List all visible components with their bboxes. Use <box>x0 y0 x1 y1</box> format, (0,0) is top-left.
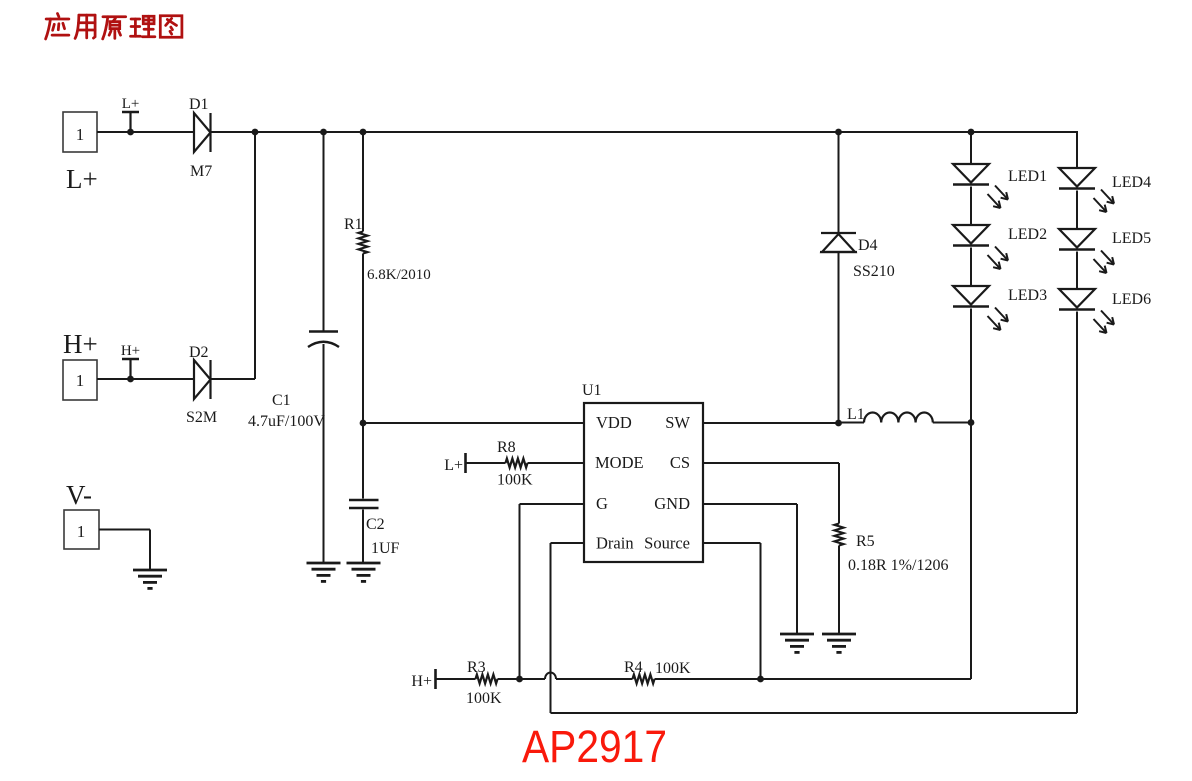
wire L+ port to R8 <box>466 462 506 464</box>
wire Source node to LED string corner <box>761 678 972 680</box>
wire U1.CS right then down to R5 <box>703 462 839 464</box>
node junction rail/LED1 string <box>968 129 975 136</box>
svg-text:4.7uF/100V: 4.7uF/100V <box>248 413 325 430</box>
connector J2 H+ (box pin 1) <box>63 329 98 400</box>
wire U1.G left and down to feedback node <box>520 503 585 505</box>
svg-text:100K: 100K <box>497 472 533 489</box>
svg-text:100K: 100K <box>466 690 502 707</box>
wire top-right corner down to LED4 <box>1076 131 1078 168</box>
svg-text:H+: H+ <box>63 329 98 359</box>
wire LED4 to LED5 <box>1076 191 1078 230</box>
svg-text:AP2917: AP2917 <box>522 721 667 772</box>
svg-text:SW: SW <box>665 413 690 432</box>
wire D2 cathode to rail branch <box>211 378 256 380</box>
svg-text:1: 1 <box>76 125 85 144</box>
svg-text:1UF: 1UF <box>371 540 400 557</box>
wire U1.SW to L1 node <box>703 422 839 424</box>
svg-text:100K: 100K <box>655 660 691 677</box>
port H+ (feedback) <box>434 669 437 689</box>
connector J3 V- (box pin 1) <box>64 480 99 549</box>
port L+ (MODE pull-up) <box>464 453 467 473</box>
LED LED3 <box>953 286 1008 330</box>
svg-text:CS: CS <box>670 453 690 472</box>
wire LED1 to LED2 <box>970 187 972 226</box>
node junction rail/C1 <box>320 129 327 136</box>
ground (U1 GND) <box>780 634 814 652</box>
svg-text:U1: U1 <box>582 382 602 399</box>
wire LED3 down through L1 node to feedback line <box>970 309 972 680</box>
LED LED5 <box>1059 229 1114 273</box>
svg-text:LED6: LED6 <box>1112 291 1151 308</box>
svg-text:LED4: LED4 <box>1112 174 1151 191</box>
title 应用原理图 <box>46 14 182 39</box>
svg-text:L1: L1 <box>847 406 865 423</box>
wire rail to D4 cathode <box>838 132 840 233</box>
wire L+ box to D1 anode <box>97 131 194 133</box>
diode D2 <box>194 360 211 399</box>
LED LED1 <box>953 164 1008 208</box>
svg-text:GND: GND <box>654 494 690 513</box>
ground (C1) <box>307 563 341 581</box>
diode D1 <box>194 113 211 152</box>
svg-text:LED1: LED1 <box>1008 168 1047 185</box>
LED LED4 <box>1059 168 1114 212</box>
svg-text:M7: M7 <box>190 163 212 180</box>
node junction L1/LED1-3 string <box>968 419 975 426</box>
inductor L1 <box>864 413 933 423</box>
node VDD junction <box>360 420 367 427</box>
wire D4 anode to SW node <box>838 252 840 423</box>
svg-text:R4: R4 <box>624 659 643 676</box>
resistor R8 <box>506 459 528 468</box>
svg-text:S2M: S2M <box>186 409 217 426</box>
wire H+ port to R3 <box>436 678 476 680</box>
ground (R5) <box>822 634 856 652</box>
diode D4 (freewheel) <box>820 233 857 252</box>
node junction rail/D2-branch <box>252 129 259 136</box>
svg-text:R3: R3 <box>467 659 486 676</box>
capacitor C2 <box>349 500 379 508</box>
svg-text:1: 1 <box>77 522 86 541</box>
wire U1.Drain left and down <box>551 542 585 544</box>
svg-text:V-: V- <box>66 480 92 510</box>
connector J1 L+ (box pin 1) <box>63 112 98 194</box>
wire V- box to ground <box>99 529 150 531</box>
svg-text:L+: L+ <box>66 164 98 194</box>
LED LED2 <box>953 225 1008 269</box>
capacitor C1 (polarized) <box>308 332 339 348</box>
svg-text:R1: R1 <box>344 216 363 233</box>
wire U1.Source right then down <box>703 542 761 544</box>
wire crossover to R4 <box>556 678 633 680</box>
svg-text:L+: L+ <box>122 96 140 112</box>
wire C2 bottom to ground <box>362 510 364 564</box>
wire Drain line to bottom-right corner <box>551 712 1078 714</box>
wire LED2 to LED3 <box>970 248 972 287</box>
wire VDD node to C2 top <box>362 423 364 499</box>
svg-text:R5: R5 <box>856 533 875 550</box>
svg-text:H+: H+ <box>411 673 432 690</box>
wire rail to C1 top <box>323 132 325 331</box>
svg-text:H+: H+ <box>121 343 140 359</box>
wire L1 to LED string node <box>933 422 971 424</box>
svg-text:LED3: LED3 <box>1008 287 1047 304</box>
wire LED6 down to bottom-right corner <box>1076 312 1078 714</box>
wire R5 bottom to ground <box>838 546 840 635</box>
wire U1.GND right then down to ground <box>703 503 797 505</box>
wire SW node to L1 <box>839 422 865 424</box>
wire hop over Drain wire <box>545 673 556 680</box>
svg-text:6.8K/2010: 6.8K/2010 <box>367 267 431 283</box>
svg-text:LED5: LED5 <box>1112 230 1151 247</box>
svg-text:Source: Source <box>644 534 690 553</box>
wire rail to R1 top <box>362 132 364 232</box>
wire VDD node to U1.VDD <box>363 422 584 424</box>
svg-text:L+: L+ <box>444 457 463 474</box>
svg-text:0.18R 1%/1206: 0.18R 1%/1206 <box>848 557 948 574</box>
wire LED5 to LED6 <box>1076 252 1078 290</box>
LED LED6 <box>1059 289 1114 333</box>
wire G node to crossover <box>520 678 546 680</box>
resistor R4 <box>633 675 655 684</box>
svg-text:Drain: Drain <box>596 534 634 553</box>
wire D2-branch vertical <box>254 132 256 379</box>
wire R1 bottom to VDD node <box>362 254 364 424</box>
svg-text:1: 1 <box>76 371 85 390</box>
net label H+ on input wire <box>122 359 139 382</box>
node junction G/feedback <box>516 676 523 683</box>
wire R4 to Source node <box>655 678 761 680</box>
wire R3 to G node <box>498 678 520 680</box>
svg-text:R8: R8 <box>497 439 516 456</box>
op-amp U1 AP2917 (IC body) <box>584 403 703 562</box>
svg-text:D1: D1 <box>189 96 209 113</box>
wire rail to LED1 <box>970 132 972 164</box>
resistor R1 <box>359 232 368 254</box>
svg-text:LED2: LED2 <box>1008 226 1047 243</box>
wire top rail (D1 cathode to top-right corner) <box>211 131 1078 133</box>
svg-text:G: G <box>596 494 608 513</box>
svg-text:VDD: VDD <box>596 413 632 432</box>
svg-text:C2: C2 <box>366 516 385 533</box>
node junction SW/L1 left <box>835 420 842 427</box>
svg-text:C1: C1 <box>272 392 291 409</box>
wire H+ box to D2 anode <box>97 378 194 380</box>
resistor R3 <box>476 675 498 684</box>
ground (V-) <box>133 570 167 588</box>
svg-text:D2: D2 <box>189 344 209 361</box>
svg-text:MODE: MODE <box>595 453 644 472</box>
svg-text:SS210: SS210 <box>853 263 895 280</box>
resistor R5 <box>835 524 844 546</box>
net label L+ on input wire <box>122 112 139 135</box>
node junction Source/feedback <box>757 676 764 683</box>
node junction rail/D4 <box>835 129 842 136</box>
ground (C2) <box>347 563 381 581</box>
svg-text:D4: D4 <box>858 237 878 254</box>
wire R8 to U1.MODE <box>528 462 585 464</box>
node junction rail/R1 <box>360 129 367 136</box>
wire C1 bottom to ground <box>323 344 325 563</box>
